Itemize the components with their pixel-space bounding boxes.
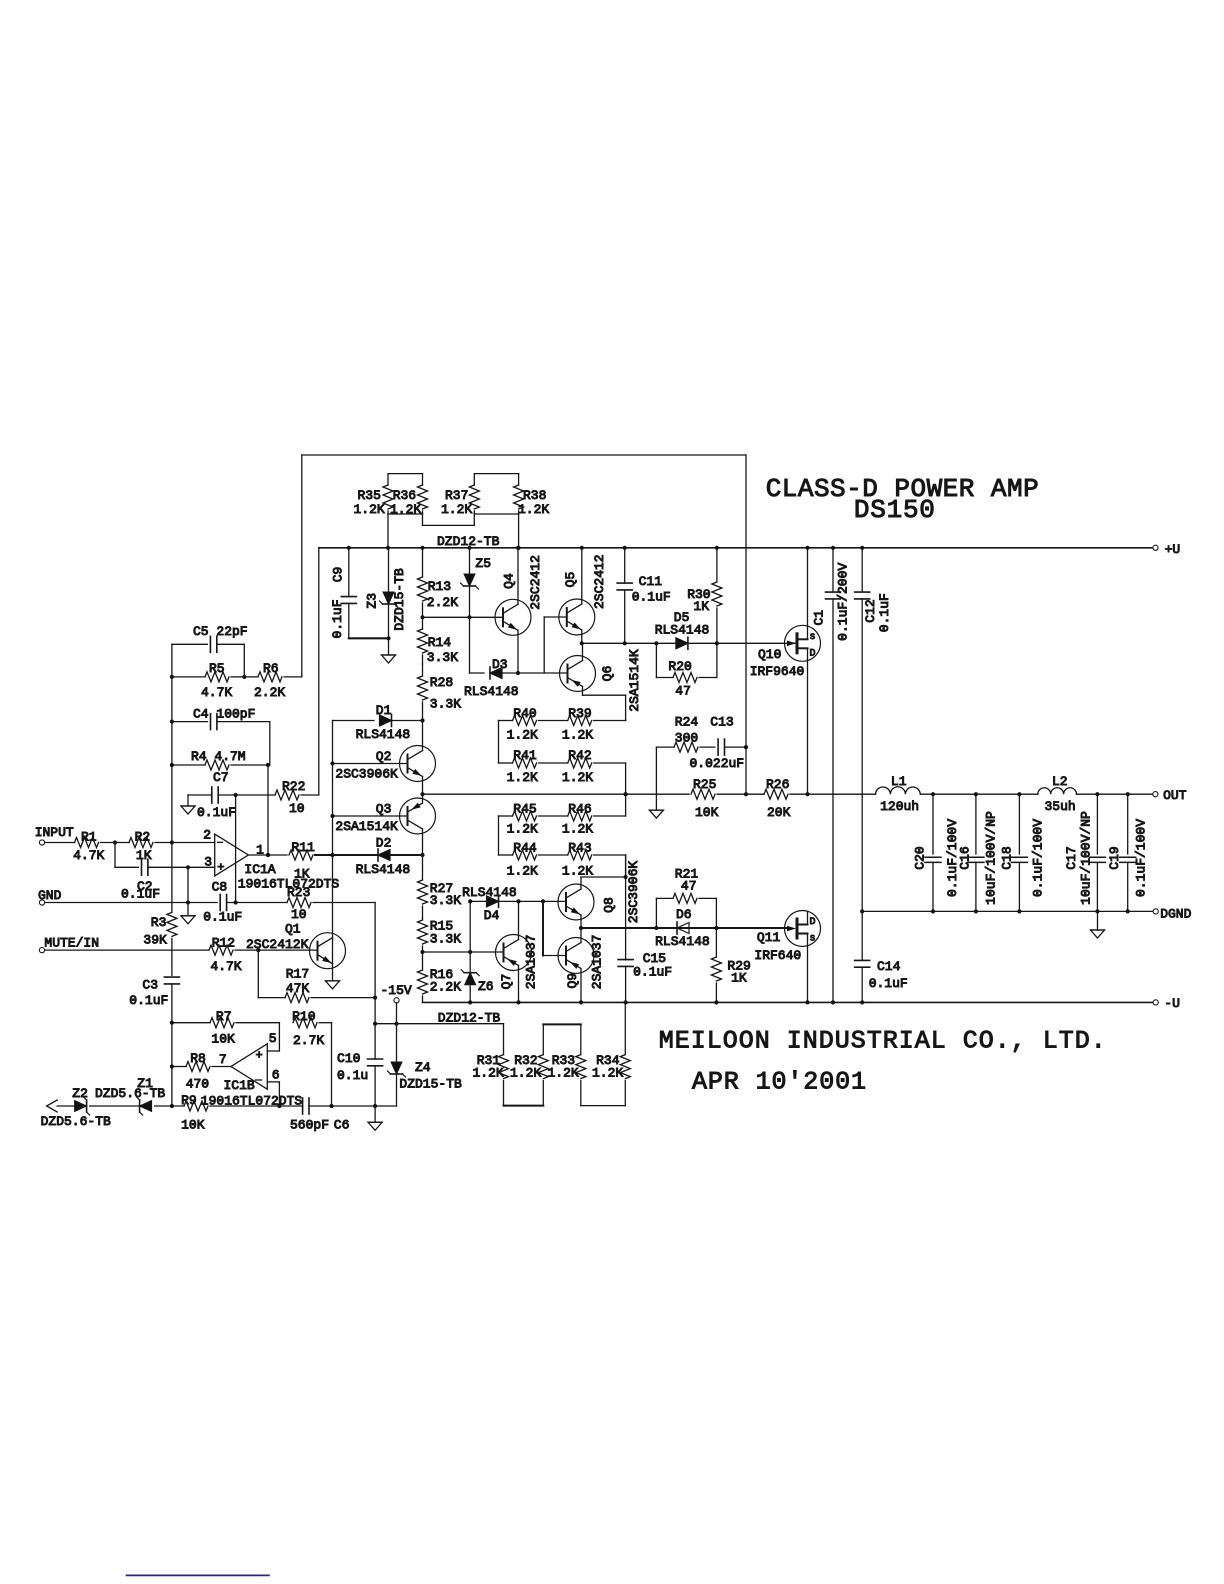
junction (386, 546, 390, 550)
svg-text:0.1uF/100V: 0.1uF/100V (1134, 819, 1149, 897)
ground (1091, 911, 1105, 938)
svg-text:47: 47 (681, 879, 697, 894)
wire (422, 777, 424, 795)
svg-text:2.2K: 2.2K (254, 685, 285, 700)
svg-text:IRF9640: IRF9640 (750, 664, 805, 679)
svg-text:1.2K: 1.2K (510, 1065, 541, 1080)
svg-text:C12: C12 (863, 599, 878, 622)
resistor R30 (687, 548, 722, 644)
svg-text:1.2K: 1.2K (507, 728, 538, 743)
svg-text:R1: R1 (81, 830, 97, 845)
junction (580, 546, 584, 550)
svg-text:1.2K: 1.2K (354, 502, 385, 517)
transistor Q9 (558, 935, 604, 990)
svg-text:Q2: Q2 (376, 749, 392, 764)
wire (333, 854, 379, 856)
node Q7 base row (423, 951, 504, 953)
svg-text:Z2: Z2 (72, 1086, 88, 1101)
svg-text:INPUT: INPUT (35, 825, 74, 840)
capacitor C11 (617, 548, 671, 644)
junction (715, 546, 719, 550)
wire (474, 473, 518, 475)
wire (115, 866, 138, 868)
svg-text:Q11: Q11 (757, 930, 781, 945)
svg-text:470: 470 (186, 1077, 209, 1092)
wire (517, 630, 519, 673)
resistor R9 (181, 1093, 208, 1133)
svg-text:47: 47 (675, 684, 691, 699)
svg-text:C19: C19 (1107, 846, 1122, 869)
node Q4 base row (423, 616, 504, 618)
resistor R15 (418, 918, 462, 952)
svg-text:D3: D3 (492, 657, 508, 672)
svg-text:3: 3 (204, 855, 212, 870)
svg-text:C7: C7 (213, 770, 229, 785)
terminal MUTE/IN (39, 936, 99, 953)
svg-text:RLS4148: RLS4148 (655, 623, 710, 638)
wire (539, 720, 568, 722)
wire (349, 637, 389, 639)
svg-text:DZD5.6-TB: DZD5.6-TB (41, 1114, 111, 1129)
svg-text:IC1B: IC1B (224, 1078, 255, 1093)
wire (235, 949, 318, 951)
wire (543, 955, 566, 957)
diode D3 (464, 657, 519, 699)
svg-text:10: 10 (291, 907, 307, 922)
wire (315, 854, 333, 856)
wire (309, 1105, 397, 1107)
capacitor C10 (337, 1051, 383, 1106)
svg-text:10K: 10K (181, 1118, 205, 1133)
wire (187, 867, 189, 902)
resistor R34 (592, 1002, 630, 1105)
svg-text:1.2K: 1.2K (473, 1065, 504, 1080)
wire (594, 815, 626, 817)
wire (278, 1023, 280, 1051)
svg-text:D2: D2 (376, 835, 392, 850)
capacitor C2 (121, 859, 160, 901)
svg-text:R45: R45 (513, 802, 536, 817)
svg-text:C10: C10 (337, 1051, 360, 1066)
junction (394, 1022, 398, 1026)
svg-text:Z3: Z3 (365, 593, 380, 609)
svg-text:RLS4148: RLS4148 (356, 862, 411, 877)
junction (624, 1000, 628, 1004)
junction (654, 926, 658, 930)
resistor R24 (656, 715, 714, 753)
wire (498, 816, 500, 855)
wire (235, 795, 237, 903)
capacitor C6 (290, 1098, 349, 1133)
capacitor C18 (999, 794, 1045, 911)
terminal -U (1153, 996, 1180, 1011)
svg-text:Q6: Q6 (600, 666, 615, 682)
capacitor C4 (172, 707, 270, 730)
junction (420, 546, 424, 550)
wire (625, 763, 627, 816)
svg-text:1K: 1K (136, 848, 152, 863)
transistor Q7 (496, 935, 539, 990)
wire (57, 1105, 74, 1107)
svg-text:R9: R9 (181, 1093, 197, 1108)
capacitor C5 (172, 624, 248, 652)
svg-text:2SC3906K: 2SC3906K (335, 767, 398, 782)
svg-text:Q3: Q3 (376, 802, 392, 817)
junction (1095, 792, 1099, 796)
svg-text:Z4: Z4 (415, 1060, 431, 1075)
svg-text:R13: R13 (428, 579, 451, 594)
resistor R8 (172, 1051, 231, 1092)
svg-text:4.7K: 4.7K (201, 685, 232, 700)
svg-text:R37: R37 (445, 488, 468, 503)
junction (1095, 909, 1099, 913)
junction (468, 1000, 472, 1004)
svg-text:RLS4148: RLS4148 (655, 934, 710, 949)
wire (542, 901, 544, 955)
wire (518, 966, 520, 1003)
junction (1017, 792, 1021, 796)
wire (582, 687, 584, 696)
junction (805, 1000, 809, 1004)
inductor L1 (876, 774, 921, 814)
svg-text:Q7: Q7 (499, 974, 514, 990)
zener Z3 (365, 548, 408, 655)
wire (155, 1105, 184, 1107)
svg-text:R36: R36 (393, 488, 416, 503)
wire (581, 876, 626, 878)
svg-text:2.7K: 2.7K (293, 1033, 324, 1048)
svg-text:R6: R6 (263, 661, 279, 676)
svg-text:2.2K: 2.2K (427, 595, 458, 610)
svg-text:3.3K: 3.3K (427, 650, 458, 665)
wire (114, 843, 116, 868)
svg-text:L2: L2 (1052, 774, 1068, 789)
svg-text:Q5: Q5 (563, 572, 578, 588)
company (659, 1027, 1106, 1097)
resistor R6 (244, 661, 301, 700)
wire (422, 514, 424, 525)
svg-text:L1: L1 (891, 774, 907, 789)
svg-text:10uF/100V/NP: 10uF/100V/NP (1079, 811, 1094, 905)
svg-text:C4 100pF: C4 100pF (193, 707, 255, 722)
svg-text:R8: R8 (190, 1051, 206, 1066)
resistor R31 (473, 1024, 509, 1106)
capacitor C20 (912, 794, 960, 911)
wire (45, 949, 209, 951)
resistor R44 (507, 841, 538, 879)
svg-text:1.2K: 1.2K (441, 502, 472, 517)
svg-text:C6: C6 (334, 1118, 350, 1133)
svg-text:C20: C20 (912, 846, 927, 869)
terminal -15V (381, 983, 412, 1003)
wire (807, 660, 809, 794)
node Q3 base (333, 815, 408, 817)
svg-text:10K: 10K (695, 805, 719, 820)
resistor R4 (172, 749, 268, 770)
junction (805, 546, 809, 550)
svg-text:10K: 10K (211, 1031, 235, 1046)
svg-text:R22: R22 (282, 779, 305, 794)
svg-text:1.2K: 1.2K (507, 864, 538, 879)
junction (420, 792, 424, 796)
capacitor C15 (618, 855, 672, 1002)
junction (744, 792, 748, 796)
wire (594, 762, 626, 764)
svg-text:R11: R11 (291, 840, 315, 855)
resistor R11 (289, 840, 315, 881)
wire (313, 902, 375, 904)
junction (1126, 909, 1130, 913)
wire (45, 902, 218, 904)
net gate row (581, 927, 791, 929)
svg-text:1.2K: 1.2K (562, 864, 593, 879)
junction (242, 675, 246, 679)
junction (468, 950, 472, 954)
svg-text:R26: R26 (766, 777, 789, 792)
svg-text:DZD15-TB: DZD15-TB (392, 568, 407, 631)
wire (90, 1105, 140, 1107)
junction (420, 615, 424, 619)
net DGND rail (862, 910, 1153, 912)
junction (516, 899, 520, 903)
junction (266, 763, 270, 767)
svg-text:OUT: OUT (1163, 788, 1187, 803)
svg-text:1.2K: 1.2K (390, 502, 421, 517)
wire (388, 473, 423, 475)
svg-text:3.3K: 3.3K (430, 697, 461, 712)
junction (373, 996, 377, 1000)
wire (474, 513, 518, 515)
svg-text:Q8: Q8 (602, 897, 617, 913)
wire (539, 762, 568, 764)
junction (329, 1104, 333, 1108)
svg-text:0.1uF: 0.1uF (633, 965, 672, 980)
resistor R20 (656, 643, 717, 698)
resistor R43 (562, 841, 593, 879)
svg-text:R44: R44 (513, 841, 537, 856)
svg-text:s: s (810, 632, 816, 643)
svg-text:5: 5 (269, 1031, 277, 1046)
resistor R17 (258, 967, 375, 1003)
capacitor C16 (958, 794, 999, 911)
svg-text:1.2K: 1.2K (507, 822, 538, 837)
svg-text:IC1A: IC1A (244, 862, 275, 877)
mosfet Q10 (750, 625, 821, 679)
junction (373, 1022, 377, 1026)
svg-text:C1: C1 (812, 610, 827, 626)
wire (278, 1082, 280, 1106)
svg-text:+U: +U (1165, 542, 1181, 557)
svg-text:2SC2412K: 2SC2412K (246, 937, 309, 952)
junction (580, 641, 584, 645)
wire (470, 672, 485, 674)
junction (234, 793, 238, 797)
junction (347, 546, 351, 550)
svg-text:R41: R41 (513, 748, 537, 763)
wire (499, 815, 513, 817)
svg-text:1.2K: 1.2K (548, 1065, 579, 1080)
net OUT row (423, 793, 690, 795)
svg-text:+: + (217, 861, 224, 875)
zener Z2 (41, 1086, 166, 1129)
wire (583, 694, 626, 696)
svg-text:1.2K: 1.2K (562, 728, 593, 743)
capacitor C1 (812, 548, 851, 1003)
capacitor C13 (690, 715, 747, 772)
svg-text:4.7K: 4.7K (210, 959, 241, 974)
wire (594, 854, 626, 856)
junction (330, 814, 334, 818)
svg-text:R10: R10 (292, 1009, 315, 1024)
svg-text:IRF640: IRF640 (754, 948, 801, 963)
wire (582, 642, 680, 644)
junction (1126, 792, 1130, 796)
svg-text:0.1uF: 0.1uF (121, 887, 160, 902)
wire (544, 616, 567, 618)
ground (368, 1106, 382, 1130)
junction (517, 546, 521, 550)
wire (582, 643, 584, 660)
svg-text:MEILOON INDUSTRIAL CO., LTD.: MEILOON INDUSTRIAL CO., LTD. (659, 1027, 1106, 1056)
wire (469, 617, 471, 673)
wire (388, 513, 423, 515)
zener Z4 (388, 1024, 463, 1106)
svg-text:R25: R25 (693, 777, 716, 792)
resistor R36 (390, 474, 428, 517)
svg-text:+: + (256, 1049, 263, 1063)
junction (931, 792, 935, 796)
svg-text:D: D (810, 917, 816, 928)
resistor R40 (507, 706, 538, 743)
svg-text:3.3K: 3.3K (430, 932, 461, 947)
svg-text:1.2K: 1.2K (562, 822, 593, 837)
op-amp IC1B (201, 1031, 303, 1108)
svg-text:120uh: 120uh (880, 799, 919, 814)
capacitor C7 (188, 770, 236, 820)
svg-text:39K: 39K (143, 933, 167, 948)
wire (301, 455, 303, 677)
wire (331, 1023, 333, 1106)
junction (860, 909, 864, 913)
junction (579, 1000, 583, 1004)
zener Z6 (461, 952, 493, 1002)
wire (422, 794, 424, 803)
junction (623, 546, 627, 550)
wire (688, 642, 797, 644)
wire (318, 548, 320, 795)
transistor Q6 (560, 649, 643, 712)
wire (171, 644, 173, 912)
svg-text:2SA1037: 2SA1037 (523, 935, 538, 990)
wire (332, 721, 334, 938)
wire (539, 815, 568, 817)
resistor R21 (656, 867, 716, 929)
svg-text:R38: R38 (523, 488, 546, 503)
svg-text:R42: R42 (568, 748, 591, 763)
resistor R32 (510, 1024, 548, 1105)
resistor R29 (711, 928, 750, 1002)
wire (397, 1023, 504, 1025)
resistor R2 (129, 830, 153, 863)
svg-text:R5: R5 (209, 661, 225, 676)
label DZD12-TB (437, 534, 500, 549)
wire (396, 1003, 398, 1024)
wire (267, 765, 269, 855)
op-amp IC1A (203, 828, 339, 892)
junction (386, 636, 390, 640)
svg-text:0.022uF: 0.022uF (690, 756, 745, 771)
svg-text:C3: C3 (142, 977, 158, 992)
junction (266, 853, 270, 857)
junction (1017, 909, 1021, 913)
ground (382, 655, 396, 663)
svg-text:0.1uF: 0.1uF (869, 976, 908, 991)
junction (974, 909, 978, 913)
wire (267, 1050, 279, 1052)
transistor Q8 (558, 861, 641, 924)
capacitor C8 (203, 879, 242, 924)
svg-text:0.1uF/200V: 0.1uF/200V (835, 563, 850, 641)
svg-text:0.1uF: 0.1uF (129, 993, 168, 1008)
svg-text:2SC3906K: 2SC3906K (626, 861, 641, 924)
resistor R25 (691, 777, 719, 820)
svg-text:1K: 1K (294, 866, 310, 881)
wire (807, 548, 809, 627)
svg-text:7: 7 (219, 1052, 227, 1067)
resistor R38 (514, 474, 550, 517)
wire (920, 793, 1038, 795)
wire (655, 747, 657, 810)
wire (422, 721, 424, 751)
terminal INPUT (35, 825, 74, 845)
transistor Q5 (559, 554, 607, 635)
svg-text:2: 2 (203, 828, 211, 843)
svg-text:0.1uF: 0.1uF (330, 599, 345, 638)
svg-text:MUTE/IN: MUTE/IN (44, 936, 99, 951)
inductor L2 (1038, 774, 1077, 814)
wire (580, 928, 582, 943)
resistor R7 (210, 1009, 235, 1046)
wire (625, 695, 627, 720)
zener Z1 (137, 1076, 154, 1115)
svg-text:0.1uF/100V: 0.1uF/100V (1031, 819, 1046, 897)
svg-text:R24: R24 (675, 715, 699, 730)
svg-text:2SC2412: 2SC2412 (528, 555, 543, 610)
wire (518, 514, 520, 548)
junction (330, 761, 334, 765)
svg-text:0.1uF: 0.1uF (197, 805, 236, 820)
junction (516, 671, 520, 675)
node Q2 base (333, 763, 408, 765)
svg-text:10: 10 (289, 801, 305, 816)
svg-text:0.1uF: 0.1uF (632, 590, 671, 605)
svg-text:D: D (810, 648, 816, 659)
junction (831, 1000, 835, 1004)
wire (504, 1105, 544, 1107)
resistor R33 (548, 1024, 586, 1105)
junction (186, 900, 190, 904)
wire (499, 762, 513, 764)
svg-text:RLS4148: RLS4148 (462, 885, 517, 900)
resistor R26 (764, 777, 791, 820)
svg-text:C11: C11 (639, 574, 663, 589)
svg-text:APR 10'2001: APR 10'2001 (692, 1068, 866, 1097)
wire (302, 454, 746, 456)
transistor Q3 (335, 798, 435, 834)
svg-text:-15V: -15V (381, 983, 412, 998)
junction (170, 720, 174, 724)
capacitor C14 (855, 911, 908, 1002)
